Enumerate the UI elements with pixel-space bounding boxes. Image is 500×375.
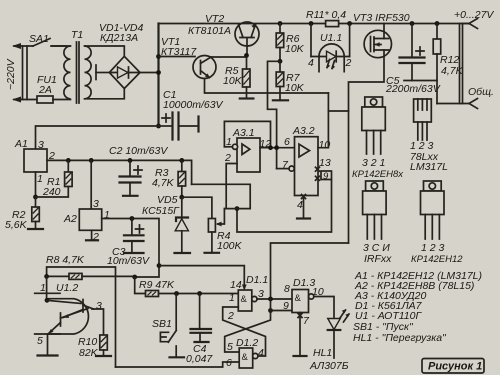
capacitor C5: [411, 24, 413, 58]
node VT2 emitter / R5: [244, 53, 249, 58]
svg-text:HL1: HL1: [313, 347, 332, 359]
capacitor C1 plates: [173, 113, 179, 140]
ground bar A3.2 pin4: [297, 217, 310, 219]
D1.2 output circle: [253, 353, 258, 358]
regulator A1 box: [24, 149, 47, 172]
svg-text:Общ.: Общ.: [468, 86, 494, 98]
svg-text:10K: 10K: [285, 43, 305, 55]
capacitor C3: [131, 219, 133, 236]
svg-text:3: 3: [96, 300, 102, 312]
wire VT1 base down to y93: [205, 79, 329, 94]
svg-text:5: 5: [227, 341, 233, 353]
U1.2 base drop: [46, 276, 48, 300]
A3.2 pin 9 cross mark: [316, 176, 320, 180]
svg-text:10m/63V: 10m/63V: [107, 255, 150, 267]
regulator A2 box: [79, 209, 101, 230]
U1.1 pin 4 drop: [310, 24, 312, 57]
X-cross wire pin2-pin4: [223, 307, 266, 356]
wire gate pulldown y243: [271, 243, 349, 299]
svg-text:1: 1: [37, 173, 43, 185]
svg-text:R8 4,7K: R8 4,7K: [46, 254, 85, 266]
node R9 / SB1: [174, 291, 179, 296]
capacitor C4: [199, 294, 201, 329]
svg-text:КС515Г: КС515Г: [142, 205, 180, 217]
svg-text:6: 6: [284, 136, 290, 148]
resistor R12: [436, 24, 438, 40]
package IRFxx TO-220: [363, 181, 393, 265]
figure caption box: [422, 359, 484, 374]
bottom rail: [116, 362, 240, 367]
U1.2 pin 5 ground: [47, 334, 49, 356]
C1 end bar: [197, 117, 199, 132]
U1.2 body: [48, 299, 88, 334]
U1.1 LED: [327, 51, 337, 62]
HL1 emission arrows: [340, 310, 349, 322]
gate D1.3 box: [292, 290, 309, 313]
A3.2 pin 13 cross mark: [316, 167, 320, 171]
svg-text:82K: 82K: [79, 347, 99, 359]
ground bar under R10: [96, 355, 111, 357]
A3.2 pin 9 box: [321, 171, 332, 180]
svg-text:1 2 3: 1 2 3: [421, 242, 445, 254]
svg-text:6: 6: [226, 357, 232, 369]
svg-text:LM317L: LM317L: [410, 161, 448, 173]
svg-text:5: 5: [37, 335, 43, 347]
gate D1.1 box: [238, 290, 252, 311]
svg-text:4: 4: [258, 347, 264, 359]
wire mains top with arrow: [14, 45, 33, 47]
resistor R3: [181, 160, 183, 171]
bridge diode symbol: [111, 72, 140, 74]
node R3 / VD5 / R4: [179, 195, 184, 200]
node R6/R7 divider: [278, 59, 283, 64]
U1.2 pin 3 wire: [92, 309, 104, 335]
svg-text:1: 1: [40, 282, 46, 294]
ground loop wire left: [47, 267, 116, 367]
svg-text:КР142ЕН8х: КР142ЕН8х: [352, 169, 404, 180]
node pin9 tap: [268, 308, 273, 313]
ground bar under R2: [28, 228, 43, 230]
svg-text:4: 4: [308, 57, 314, 69]
svg-text:3 2 1: 3 2 1: [362, 157, 385, 169]
A1 pin 1 wire: [35, 172, 37, 197]
resistor R11: [326, 21, 339, 27]
node W1 R3: [179, 158, 184, 163]
C5 plus: [416, 47, 424, 55]
C5 negative rail bar: [404, 80, 437, 82]
svg-text:&: &: [242, 352, 249, 363]
node divider joint pin6: [274, 145, 279, 150]
U1.2 transistor pair: [47, 300, 81, 303]
A3.2 pin 4 wire with cross: [303, 196, 305, 219]
A3.1 pin 1 wire: [224, 146, 232, 148]
resistor R7: [279, 61, 281, 72]
VT3 drain wire: [383, 24, 385, 39]
LED HL1: [328, 319, 341, 330]
T1 core: [77, 42, 80, 103]
svg-text:10K: 10K: [285, 82, 305, 94]
resistor R10: [100, 335, 108, 350]
resistor R6: [279, 24, 281, 34]
A2 pin3 wire: [90, 160, 92, 209]
A2 pin 2 ground: [91, 230, 93, 240]
wire +15 to D1 pin14: [159, 266, 244, 288]
svg-text:9: 9: [323, 171, 329, 182]
svg-text:A2: A2: [63, 213, 77, 225]
wire secondary bottom to bridge: [85, 89, 125, 99]
A3.2 pin 7 circle and wire: [289, 166, 294, 171]
node top rail R12: [435, 21, 440, 26]
feedback from pin9 box down: [237, 180, 332, 233]
VT3 source wire: [349, 50, 385, 243]
output bus double line: [460, 24, 463, 104]
node feedback y208: [235, 206, 240, 211]
node D1.1 out: [268, 297, 273, 302]
svg-text:4,7K: 4,7K: [152, 177, 175, 189]
svg-text:5,6K: 5,6K: [5, 219, 28, 231]
op-amp A3.1 box: [237, 138, 260, 172]
button SB1: [175, 294, 177, 331]
node top rail R11 left: [309, 21, 314, 26]
svg-text:R11* 0,4: R11* 0,4: [306, 9, 346, 21]
wire mains bottom with arrow: [14, 99, 37, 101]
op-amp A3.2 box: [295, 137, 319, 196]
D1.1 output wire: [257, 298, 292, 300]
svg-text:4: 4: [297, 199, 303, 211]
mains cable double line: [23, 46, 28, 100]
wire VT1 collector to VT2 node: [211, 56, 246, 58]
A3.1 pin 1 inverting circle: [232, 144, 237, 149]
node top rail C5: [410, 21, 415, 26]
svg-text:3: 3: [38, 139, 44, 151]
ground bar under R7: [273, 99, 288, 101]
wire tap bar to bridge left vertex: [96, 72, 109, 74]
ground bar under C3: [124, 252, 144, 254]
node R8/R9 junction: [132, 275, 137, 280]
legend text block: [353, 270, 482, 344]
svg-text:КР142ЕН12: КР142ЕН12: [411, 254, 463, 265]
svg-text:U1.2: U1.2: [56, 282, 78, 294]
D1.3 pin 7 ground: [299, 313, 301, 357]
node R9 / C4: [197, 291, 202, 296]
A2 pin 1 wire: [102, 219, 159, 266]
svg-text:A3.2: A3.2: [292, 125, 315, 137]
ground bar under R5: [240, 97, 254, 99]
T1 secondary winding: [85, 46, 92, 99]
resistor R2: [35, 197, 37, 207]
svg-text:SB1: SB1: [152, 318, 172, 330]
wire source joint: [328, 110, 348, 112]
U1.1 arch body: [319, 44, 344, 73]
svg-text:13: 13: [319, 157, 331, 169]
D1.3 output wire to HL1: [314, 297, 334, 319]
node W1 A2pin3: [89, 158, 94, 163]
D1.3 pin 9 wire: [271, 299, 293, 311]
A3.2 pin 10 wire: [318, 93, 328, 148]
package КР142ЕН12 TO-220: [411, 181, 463, 265]
node top rail R6: [278, 21, 283, 26]
svg-text:10K: 10K: [223, 75, 243, 87]
node A1 pin1 / R2: [33, 195, 38, 200]
node raw rail / base wire: [156, 54, 161, 59]
svg-text:D1.1: D1.1: [246, 274, 268, 286]
raw rail vertical x159: [157, 24, 159, 127]
package 78Lxx TO-92: [410, 99, 448, 173]
ground bar under VD5: [175, 252, 191, 254]
wire R1 bottom to A1 pin1: [36, 187, 69, 198]
wire VD5 node to R4: [182, 197, 212, 218]
D1.1 output circle: [252, 296, 257, 301]
wire C1 left: [159, 125, 172, 127]
bridge diamond: [109, 56, 140, 88]
node R8 left: [44, 274, 49, 279]
svg-text:+0...27V: +0...27V: [454, 9, 494, 21]
svg-text:0,047: 0,047: [186, 353, 213, 365]
U1.1 pin 2 drop: [349, 24, 351, 57]
resistor R1: [67, 160, 69, 172]
svg-text:КД213А: КД213А: [100, 32, 138, 44]
svg-text:HL1 - "Перегрузка": HL1 - "Перегрузка": [353, 332, 447, 344]
D1.3 output circle: [309, 294, 314, 299]
node W1 R1: [66, 158, 71, 163]
gate D1.2 box: [239, 348, 253, 368]
svg-text:9: 9: [283, 300, 289, 312]
transistor VT3: [364, 30, 391, 57]
transistor VT2: [235, 22, 259, 46]
svg-text:T1: T1: [71, 29, 83, 41]
wire divider to op-amp inputs: [268, 61, 281, 168]
wire bridge right vertex to raw rail: [140, 72, 159, 74]
A3.1 output wire: [260, 147, 295, 149]
resistor R4: [208, 219, 215, 233]
capacitor C2: [129, 160, 131, 176]
svg-text:C2 10m/63V: C2 10m/63V: [109, 145, 168, 157]
svg-text:2: 2: [227, 310, 234, 322]
svg-text:10000m/63V: 10000m/63V: [163, 99, 224, 111]
svg-text:АЛ307Б: АЛ307Б: [309, 360, 349, 372]
node raw rail / bridge: [156, 70, 161, 75]
svg-text:VT3 IRF530: VT3 IRF530: [353, 12, 410, 24]
svg-text:IRFxx: IRFxx: [364, 253, 392, 265]
svg-text:2: 2: [345, 57, 352, 69]
node A2pin1 / C3: [130, 216, 135, 221]
svg-text:1: 1: [229, 292, 235, 304]
X-cross wire out-pin5: [225, 311, 271, 353]
U1.1 emission arrows: [327, 60, 335, 69]
wire feedback W1 to R4: [192, 184, 251, 208]
wire secondary top to bridge: [85, 46, 125, 56]
node W1 C2: [128, 158, 133, 163]
wire C1 right to end bar: [179, 125, 199, 127]
wire A2 +15 to R8 junction: [135, 266, 159, 277]
svg-text:VT2: VT2: [205, 13, 224, 25]
svg-text:&: &: [295, 293, 302, 304]
T1 primary winding: [64, 46, 71, 99]
wire raw to A1 pin3: [36, 126, 159, 149]
top rail wire: [159, 23, 470, 25]
node A3.1 out: [268, 145, 273, 150]
zener VD5: [181, 197, 183, 218]
U1.1 LED wire: [311, 56, 350, 58]
wire raw rail to VT1: [159, 56, 196, 58]
R4 wiper arrow: [218, 209, 224, 224]
svg-text:8: 8: [284, 283, 290, 295]
svg-text:Рисунок 1: Рисунок 1: [428, 361, 482, 373]
svg-text:100K: 100K: [217, 240, 243, 252]
A3.1 feedback bracket: [224, 121, 270, 147]
node top rail R11 right: [347, 21, 352, 26]
wire A1 pin2 W1: [47, 160, 192, 184]
svg-text:U1.1: U1.1: [320, 32, 342, 44]
resistor R8: [47, 275, 69, 277]
U1.2 pin 5 stub: [35, 333, 60, 335]
node raw rail / C1: [156, 124, 161, 129]
transistor VT1: [193, 56, 216, 79]
resistor R9: [135, 277, 146, 294]
SB1 ground: [175, 346, 177, 357]
svg-text:КТ8101А: КТ8101А: [188, 25, 231, 37]
node +15 rail: [157, 263, 162, 268]
C1 plus sign: [162, 114, 170, 122]
U1.2 pin 1 stub: [35, 292, 60, 294]
svg-text:2: 2: [224, 152, 231, 164]
secondary tap bar: [95, 65, 97, 80]
svg-text:~220V: ~220V: [5, 58, 17, 90]
resistor R5: [243, 69, 251, 87]
ground bar under R4: [205, 252, 220, 254]
svg-text:R9 47K: R9 47K: [139, 279, 175, 291]
ground bar under C2: [123, 195, 138, 197]
svg-text:2A: 2A: [38, 84, 52, 96]
A3.1 pin 2 wire: [226, 164, 237, 209]
svg-text:&: &: [241, 294, 248, 305]
svg-text:2200m/63V: 2200m/63V: [385, 83, 441, 95]
node U1.2 base: [45, 298, 50, 303]
package КР142ЕН8х TO-220: [352, 97, 404, 180]
